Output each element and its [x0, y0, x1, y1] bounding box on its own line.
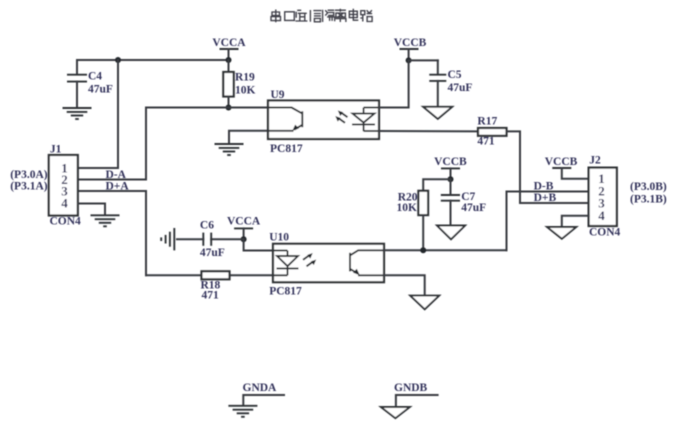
通: [295, 10, 307, 21]
svg-text:47uF: 47uF: [461, 202, 486, 214]
wire J2 pin4 to ground: [562, 216, 589, 227]
node: junction rail/J1 pin1 riser: [115, 57, 121, 63]
wire D-A riser: [145, 108, 147, 180]
wire J1 pin1 riser: [78, 60, 118, 168]
svg-text:CON4: CON4: [50, 216, 82, 228]
口: [285, 12, 295, 21]
ground (triangle) under C7: [437, 226, 465, 240]
wire VCCA junction to U10 anode: [244, 239, 273, 250]
svg-text:VCCB: VCCB: [394, 37, 427, 49]
ground (earth) GNDA: [228, 406, 257, 417]
svg-text:VCCA: VCCA: [227, 216, 261, 228]
node: junction rail/R19: [226, 57, 232, 63]
svg-text:VCCA: VCCA: [212, 37, 246, 49]
transistor U9 phototransistor: [268, 108, 302, 132]
svg-text:U10: U10: [269, 232, 289, 244]
svg-text:D-A: D-A: [106, 169, 127, 181]
wire D-A from J1 pin2: [78, 179, 146, 181]
svg-text:GNDB: GNDB: [394, 382, 428, 394]
svg-text:C7: C7: [461, 191, 475, 203]
电: [349, 9, 358, 20]
node: junction R20/collector: [420, 247, 426, 253]
capacitor C4: [67, 60, 113, 107]
wire R18 to U10 cathode: [230, 274, 274, 276]
node: junction R19/D-A/U9: [226, 105, 232, 111]
svg-text:VCCB: VCCB: [434, 156, 467, 168]
svg-text:J1: J1: [50, 143, 62, 155]
svg-text:(P3.0A): (P3.0A): [10, 169, 48, 181]
wire U9 cathode to R17: [379, 130, 478, 132]
connector J2: [589, 155, 667, 239]
diode U9 LED: [335, 108, 379, 132]
wire U10 collector row to D-B riser: [384, 249, 507, 251]
resistor R18: [201, 271, 230, 301]
svg-text:GNDA: GNDA: [243, 382, 278, 394]
power VCCA (at C6): [227, 216, 261, 240]
wire D+A to R18: [146, 274, 202, 276]
wire R19 bottom row to U9: [146, 107, 268, 109]
ground (earth, rotated) left of C6: [161, 228, 174, 250]
connector J1: [10, 143, 81, 227]
ground (triangle) GNDB: [381, 407, 410, 418]
power VCCB (top): [394, 37, 427, 60]
svg-text:U9: U9: [271, 89, 285, 101]
svg-text:J2: J2: [589, 155, 601, 167]
node: junction VCCB/R20/C7: [448, 176, 454, 182]
ground (triangle) at U10 emitter: [410, 296, 439, 310]
power VCCB (above R20/C7): [434, 156, 467, 180]
title 串口通信隔离电路 (hand-drawn strokes): [271, 9, 372, 23]
离: [335, 9, 346, 22]
svg-text:D+B: D+B: [534, 192, 557, 204]
svg-text:CON4: CON4: [589, 226, 621, 238]
resistor R17: [477, 115, 506, 147]
resistor R20: [397, 179, 451, 250]
svg-text:C4: C4: [88, 71, 102, 83]
wire VCCB to C5: [409, 59, 438, 61]
transistor U10 phototransistor: [350, 250, 384, 275]
串: [271, 10, 281, 23]
wire D-B from J2 pin2: [507, 192, 589, 251]
node: junction C6/VCCA/U10 anode: [241, 236, 247, 242]
wire U9 emitter to ground: [229, 131, 268, 144]
svg-text:D+A: D+A: [106, 180, 130, 192]
diode U10 LED: [273, 251, 316, 276]
ground (earth) at J1 pin4: [91, 215, 120, 226]
svg-text:10K: 10K: [235, 85, 256, 97]
svg-text:471: 471: [477, 136, 495, 148]
svg-text:R19: R19: [235, 72, 255, 84]
ground (earth) under C4: [63, 108, 92, 119]
svg-text:C6: C6: [200, 219, 214, 231]
svg-text:PC817: PC817: [270, 143, 303, 155]
capacitor C5: [429, 60, 472, 106]
ground (triangle) under C5: [423, 107, 452, 119]
svg-text:R17: R17: [477, 115, 497, 127]
wire R17 to J2 pin3 (D+B): [507, 131, 589, 203]
power VCCA (top): [212, 37, 246, 60]
wire D+A from J1 pin3: [78, 191, 146, 275]
resistor R19: [223, 60, 255, 108]
svg-text:C5: C5: [448, 69, 462, 81]
svg-text:(P3.1B): (P3.1B): [630, 193, 667, 205]
svg-text:VCCB: VCCB: [545, 156, 578, 168]
power VCCB (at J2): [545, 156, 589, 179]
svg-text:4: 4: [61, 195, 68, 210]
optocoupler U10: [269, 232, 384, 298]
wire U9 anode riser: [379, 60, 409, 107]
路: [360, 10, 372, 21]
wire U10 emitter to ground: [384, 275, 425, 295]
net flag GNDA: [243, 382, 285, 405]
node: junction VCCB/C5/U9 anode: [406, 57, 412, 63]
svg-text:47uF: 47uF: [448, 82, 473, 94]
svg-text:10K: 10K: [397, 202, 418, 214]
信: [310, 10, 321, 22]
svg-text:47uF: 47uF: [200, 247, 225, 259]
ground (earth) at U9 emitter: [215, 144, 244, 155]
ground (triangle) at J2 pin4: [547, 227, 576, 239]
svg-text:D-B: D-B: [534, 180, 554, 192]
wire top rail A: [77, 59, 229, 61]
svg-text:47uF: 47uF: [88, 84, 113, 96]
svg-text:(P3.0B): (P3.0B): [630, 181, 667, 193]
svg-text:471: 471: [202, 290, 220, 302]
net flag GNDB: [394, 382, 438, 406]
svg-text:4: 4: [598, 208, 605, 223]
capacitor C7: [441, 179, 486, 225]
optocoupler U9: [268, 89, 379, 155]
wire J1 pin4 to ground: [78, 204, 105, 215]
svg-text:(P3.1A): (P3.1A): [10, 180, 48, 192]
svg-text:PC817: PC817: [269, 285, 302, 297]
capacitor C6: [177, 219, 244, 259]
隔: [323, 10, 335, 22]
